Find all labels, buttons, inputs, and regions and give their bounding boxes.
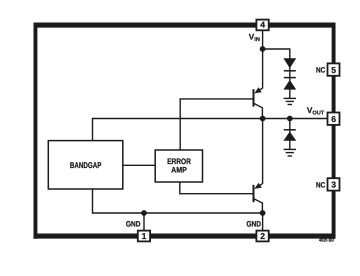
svg-text:AMP: AMP <box>171 166 187 175</box>
svg-text:BANDGAP: BANDGAP <box>70 160 102 170</box>
svg-text:GND: GND <box>126 220 141 229</box>
wire: VOUT net (feedback line from BANDGAP top to pin 6) <box>93 119 328 141</box>
pin 4 <box>256 20 268 31</box>
wire: output diode branch <box>289 119 291 150</box>
svg-text:VOUT: VOUT <box>307 106 325 117</box>
block ERROR AMP <box>155 150 202 182</box>
svg-text:1: 1 <box>142 231 147 241</box>
wire: BANDGAP to ERROR AMP <box>123 164 155 166</box>
wire: ground rail from BANDGAP bottom to Q2 collector <box>93 189 263 213</box>
IC package outline <box>34 25 336 236</box>
wire: ERROR AMP top output to Q1 base <box>180 99 253 150</box>
svg-text:4025 BD: 4025 BD <box>319 237 335 242</box>
svg-text:NC: NC <box>316 66 326 75</box>
pin 1 <box>138 231 150 242</box>
junction: ground rail at pin 2 <box>260 210 266 216</box>
svg-text:VIN: VIN <box>249 33 260 44</box>
transistor Q2 (PNP) <box>254 183 263 213</box>
svg-text:GND: GND <box>246 220 261 229</box>
svg-text:3: 3 <box>331 180 336 190</box>
junction: VOUT at output diode <box>287 116 293 122</box>
wire: Q2 collector to pin 2 <box>262 213 264 231</box>
wire: ground rail to pin 1 <box>143 213 145 231</box>
block BANDGAP <box>48 141 123 189</box>
junction: ground rail at pin 1 <box>141 210 147 216</box>
ground (clamp diodes) <box>284 98 296 104</box>
pin 5 <box>328 63 340 75</box>
wire: pin 4 stub to VIN node <box>262 30 264 49</box>
pin 6 <box>328 113 340 125</box>
svg-text:6: 6 <box>331 114 336 124</box>
wire: ERROR AMP bottom output to Q2 base <box>180 182 253 194</box>
svg-text:4: 4 <box>260 20 265 30</box>
junction: VOUT at Q1 collector <box>260 116 266 122</box>
wire: clamp-diode branch vertical <box>289 58 291 98</box>
svg-text:NC: NC <box>316 181 326 190</box>
diode D3 (output clamp, cathode to VOUT) <box>283 130 296 141</box>
junction: VIN node <box>260 46 266 52</box>
diode D1 (clamp, anode to VIN) <box>283 58 296 71</box>
pin 2 <box>256 231 268 242</box>
diode D2 (clamp, anode to ground) <box>283 78 296 90</box>
ground (output diode) <box>284 149 296 156</box>
wire: VIN node to clamp-diode branch <box>263 49 290 58</box>
svg-text:5: 5 <box>331 65 336 75</box>
wire: VIN node down to Q1 emitter <box>262 49 264 88</box>
wire: VOUT node down to Q2 emitter <box>262 119 264 184</box>
svg-text:2: 2 <box>260 231 265 241</box>
transistor Q1 (PNP pass transistor) <box>254 88 263 119</box>
pin 3 <box>328 178 340 190</box>
